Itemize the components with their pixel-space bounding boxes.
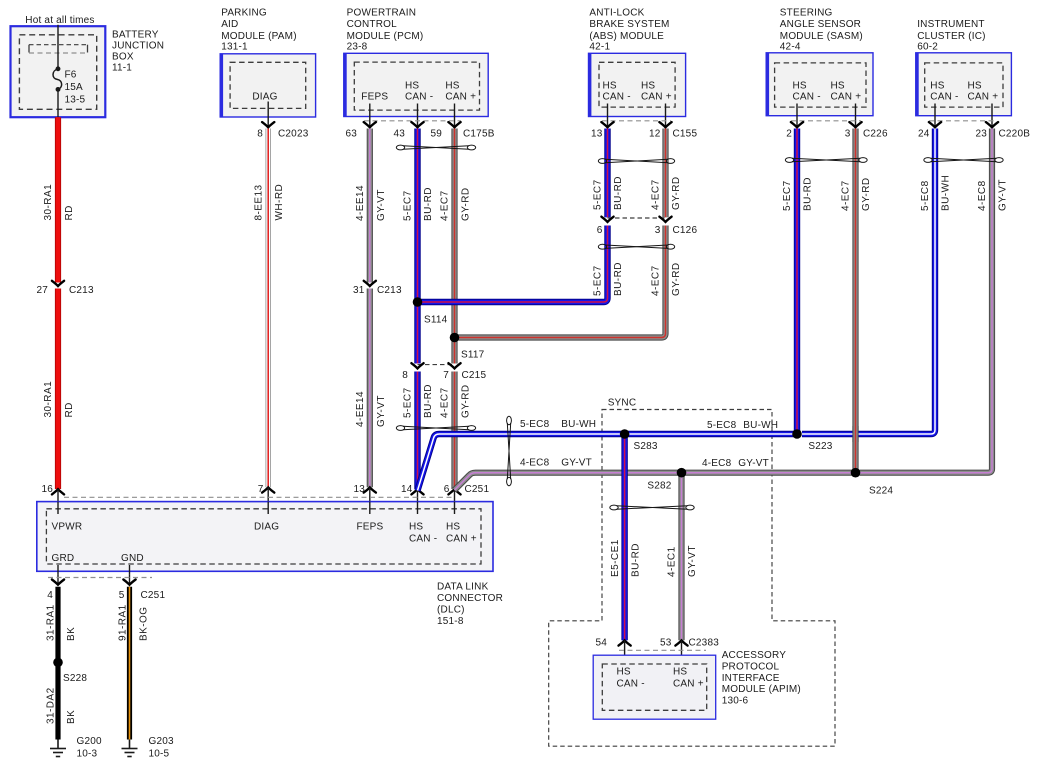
svg-text:5-EC7: 5-EC7 xyxy=(403,387,414,418)
twisted pair SYNC bus wires xyxy=(507,416,512,485)
svg-text:59: 59 xyxy=(430,128,442,139)
connector C155 dashed line xyxy=(602,120,671,122)
twisted pair APIM CAN wires xyxy=(610,505,694,510)
svg-text:GND: GND xyxy=(121,553,144,564)
svg-text:30-RA1: 30-RA1 xyxy=(43,184,54,221)
BJB internal bus bars xyxy=(29,45,88,53)
inline connector C215 arrow pin 7 xyxy=(448,363,460,368)
wire 4-EC7 GY-RD ABS HS CAN+ lower segment to splice S117 xyxy=(455,226,666,338)
data link connector DLC box xyxy=(37,502,493,572)
APIM pin 54 lead xyxy=(624,640,626,666)
svg-text:CAN -: CAN - xyxy=(617,679,645,690)
ABS connector arrow pin 13 xyxy=(601,122,613,127)
svg-text:4-EC7: 4-EC7 xyxy=(440,387,451,418)
svg-text:31: 31 xyxy=(353,285,365,296)
svg-text:GRD: GRD xyxy=(52,553,75,564)
svg-text:C155: C155 xyxy=(673,128,698,139)
svg-text:ANGLE SENSOR: ANGLE SENSOR xyxy=(780,19,861,30)
svg-text:HS: HS xyxy=(446,522,460,533)
svg-text:42-4: 42-4 xyxy=(780,41,801,52)
svg-text:4: 4 xyxy=(47,590,53,601)
DLC pin 14 lead xyxy=(417,489,419,501)
svg-text:C126: C126 xyxy=(673,225,698,236)
inline connector C126 arrow pin 6 xyxy=(601,217,613,222)
svg-text:C226: C226 xyxy=(863,128,888,139)
svg-text:CAN +: CAN + xyxy=(445,92,476,103)
svg-text:53: 53 xyxy=(660,638,672,649)
svg-text:8-EE13: 8-EE13 xyxy=(254,184,265,220)
DLC connector arrow pin 13 xyxy=(364,487,376,492)
PCM connector arrow pin 59 xyxy=(448,122,460,127)
inline connector C215 arrow pin 8 xyxy=(411,363,423,368)
fuse F6 15A xyxy=(53,67,62,91)
svg-text:BK: BK xyxy=(66,710,77,724)
DLC GRD internal lead xyxy=(57,565,59,574)
svg-text:23: 23 xyxy=(975,128,987,139)
svg-text:BOX: BOX xyxy=(112,52,134,63)
IC connector arrow pin 24 xyxy=(929,122,941,127)
svg-text:CAN +: CAN + xyxy=(641,92,672,103)
svg-text:8: 8 xyxy=(257,128,263,139)
svg-text:CAN -: CAN - xyxy=(603,92,631,103)
svg-text:131-1: 131-1 xyxy=(221,41,248,52)
svg-text:Hot at all times: Hot at all times xyxy=(25,15,94,26)
wire 4-EE14 GY-VT FEPS wire upper segment xyxy=(367,129,373,283)
svg-text:BU-RD: BU-RD xyxy=(613,262,624,296)
splice S282 xyxy=(677,468,687,478)
svg-text:14: 14 xyxy=(401,484,413,495)
svg-text:HS: HS xyxy=(793,81,807,92)
svg-text:16: 16 xyxy=(41,484,53,495)
DLC FEPS internal lead xyxy=(369,502,371,514)
feed line from Hot at all times xyxy=(57,25,59,69)
svg-text:27: 27 xyxy=(36,285,48,296)
twisted pair DLC CAN wires xyxy=(396,426,475,431)
svg-text:CAN -: CAN - xyxy=(930,92,958,103)
svg-text:7: 7 xyxy=(258,484,264,495)
DLC top connector dashed line xyxy=(64,496,455,498)
APIM connector arrow pin 54 xyxy=(619,640,631,645)
svg-text:S224: S224 xyxy=(869,486,893,497)
svg-text:CAN -: CAN - xyxy=(793,92,821,103)
svg-text:S117: S117 xyxy=(461,350,485,361)
svg-text:DIAG: DIAG xyxy=(254,522,279,533)
twisted pair PCM CAN wires xyxy=(396,145,475,150)
SASM HS CAN+ pin lead xyxy=(855,104,857,127)
svg-text:HS: HS xyxy=(405,81,419,92)
svg-text:STEERING: STEERING xyxy=(780,8,833,19)
PAM connector arrow pin 8 xyxy=(262,122,274,127)
wire 8-EE13 WH-RD diagnostic wire xyxy=(266,129,271,488)
svg-text:BATTERY: BATTERY xyxy=(112,30,159,41)
svg-text:WH-RD: WH-RD xyxy=(274,184,285,221)
PCM HS CAN+ pin lead xyxy=(454,104,456,127)
svg-text:PARKING: PARKING xyxy=(221,8,267,19)
connector C215 dashed line xyxy=(418,364,455,366)
svg-text:10-3: 10-3 xyxy=(77,749,98,760)
svg-text:5-EC8: 5-EC8 xyxy=(520,419,550,430)
SASM connector arrow pin 2 xyxy=(791,122,803,127)
DLC connector arrow pin 14 xyxy=(411,489,423,494)
DLC VPWR internal lead xyxy=(57,502,59,514)
DLC connector arrow pin 4 xyxy=(52,580,64,585)
wire 4-EC1 GY-VT APIM HS CAN+ drop xyxy=(678,473,684,641)
IC HS CAN- pin lead xyxy=(934,104,936,127)
svg-text:11-1: 11-1 xyxy=(112,63,132,74)
svg-text:FEPS: FEPS xyxy=(357,522,384,533)
SASM HS CAN- pin lead xyxy=(796,104,798,127)
wire 4-EC7 GY-RD SASM crossing patch xyxy=(852,426,858,442)
splice S224 xyxy=(851,468,861,478)
wire 30-RA1 RD battery feed upper segment xyxy=(55,117,61,282)
svg-text:S114: S114 xyxy=(424,314,448,325)
twisted pair ABS CAN wires upper xyxy=(598,159,674,164)
PAM DIAG pin lead xyxy=(267,102,269,127)
svg-text:HS: HS xyxy=(617,667,631,678)
connector C2383 dashed line xyxy=(619,649,706,651)
svg-text:5: 5 xyxy=(119,590,125,601)
svg-text:BRAKE SYSTEM: BRAKE SYSTEM xyxy=(589,19,669,30)
wire 31-RA1 BK ground wire upper segment xyxy=(55,587,60,740)
ground G203 xyxy=(122,740,138,757)
svg-text:HS: HS xyxy=(641,81,655,92)
svg-text:BU-RD: BU-RD xyxy=(613,176,624,210)
svg-text:SYNC: SYNC xyxy=(608,398,637,409)
svg-text:HS: HS xyxy=(409,522,423,533)
svg-text:C251: C251 xyxy=(141,590,166,601)
svg-text:BU-RD: BU-RD xyxy=(423,187,434,221)
svg-text:2: 2 xyxy=(786,128,792,139)
accessory protocol interface module APIM box xyxy=(593,655,716,719)
connector C126 dashed line xyxy=(608,217,666,219)
svg-text:HS: HS xyxy=(831,81,845,92)
svg-text:5-EC8: 5-EC8 xyxy=(707,420,737,431)
APIM connector arrow pin 53 xyxy=(675,640,687,645)
svg-text:5-EC7: 5-EC7 xyxy=(593,179,604,210)
svg-text:4-EC7: 4-EC7 xyxy=(841,180,852,211)
svg-text:5-EC7: 5-EC7 xyxy=(593,265,604,296)
svg-text:C175B: C175B xyxy=(463,128,495,139)
svg-text:C251: C251 xyxy=(465,484,490,495)
wire 91-RA1 BK-OG ground wire xyxy=(127,587,132,740)
svg-text:3: 3 xyxy=(845,128,851,139)
svg-text:8: 8 xyxy=(402,370,408,381)
splice S283 xyxy=(620,429,630,439)
splice S223 xyxy=(792,429,802,439)
svg-text:S223: S223 xyxy=(808,441,832,452)
svg-text:5-EC8: 5-EC8 xyxy=(920,180,931,211)
svg-text:12: 12 xyxy=(649,128,661,139)
splice S228 xyxy=(53,658,63,668)
svg-text:60-2: 60-2 xyxy=(917,41,938,52)
connector C220B dashed line xyxy=(929,120,997,122)
svg-text:VPWR: VPWR xyxy=(52,522,83,533)
svg-text:GY-VT: GY-VT xyxy=(738,458,769,469)
wire E5-CE1 BU-RD APIM HS CAN- drop xyxy=(621,434,627,640)
line fuse to box bottom xyxy=(57,89,59,117)
powertrain control module PCM box xyxy=(344,53,488,116)
svg-text:5-EC7: 5-EC7 xyxy=(782,180,793,211)
svg-text:CAN +: CAN + xyxy=(831,92,862,103)
svg-text:CAN -: CAN - xyxy=(409,534,437,545)
svg-text:13: 13 xyxy=(353,484,365,495)
svg-text:GY-VT: GY-VT xyxy=(687,545,698,577)
svg-text:PROTOCOL: PROTOCOL xyxy=(722,661,780,672)
wire 30-RA1 RD battery feed lower segment xyxy=(55,289,61,490)
inline connector C213 arrow pin 27 xyxy=(52,281,64,286)
svg-text:HS: HS xyxy=(930,81,944,92)
svg-text:G203: G203 xyxy=(149,736,175,747)
svg-text:13: 13 xyxy=(591,128,603,139)
wire 4-EC8 GY-VT IC HS CAN+ segment xyxy=(860,129,993,473)
svg-text:C220B: C220B xyxy=(999,128,1031,139)
svg-text:130-6: 130-6 xyxy=(722,696,749,707)
PCM HS CAN- pin lead xyxy=(417,104,419,127)
svg-text:GY-RD: GY-RD xyxy=(671,262,682,296)
anti-lock brake system ABS module box xyxy=(589,53,686,116)
wire 5-EC7 BU-RD ABS HS CAN- lower segment to splice S114 xyxy=(418,226,608,303)
svg-text:C213: C213 xyxy=(377,285,402,296)
svg-text:FEPS: FEPS xyxy=(361,92,388,103)
svg-text:GY-VT: GY-VT xyxy=(998,179,1009,211)
svg-text:91-RA1: 91-RA1 xyxy=(118,604,129,641)
SYNC system dashed boundary xyxy=(549,410,835,747)
PCM connector arrow pin 43 xyxy=(411,122,423,127)
steering angle sensor module SASM box xyxy=(766,53,873,116)
svg-text:4-EC8: 4-EC8 xyxy=(977,180,988,211)
svg-text:CAN +: CAN + xyxy=(673,679,704,690)
svg-text:AID: AID xyxy=(221,19,238,30)
wire 5-EC7 BU-RD HS CAN- PCM lower segment xyxy=(414,372,420,490)
wire 4-EE14 GY-VT FEPS wire lower segment xyxy=(367,289,373,488)
svg-text:43: 43 xyxy=(393,128,405,139)
svg-text:42-1: 42-1 xyxy=(589,41,610,52)
svg-text:BU-RD: BU-RD xyxy=(423,384,434,418)
svg-text:JUNCTION: JUNCTION xyxy=(112,41,164,52)
svg-text:4-EC7: 4-EC7 xyxy=(651,265,662,296)
svg-text:GY-RD: GY-RD xyxy=(861,177,872,211)
svg-text:GY-RD: GY-RD xyxy=(671,176,682,210)
svg-text:4-EC7: 4-EC7 xyxy=(651,179,662,210)
ABS HS CAN+ pin lead xyxy=(665,104,667,127)
svg-text:G200: G200 xyxy=(77,736,103,747)
svg-text:63: 63 xyxy=(345,128,357,139)
wire 5-EC7 BU-RD ABS HS CAN- upper segment xyxy=(604,129,610,218)
svg-text:INSTRUMENT: INSTRUMENT xyxy=(917,19,985,30)
svg-text:S282: S282 xyxy=(647,481,671,492)
svg-text:5-EC7: 5-EC7 xyxy=(403,190,414,221)
svg-text:4-EC8: 4-EC8 xyxy=(520,458,550,469)
DLC connector arrow pin 7 xyxy=(262,487,274,492)
DLC GND internal lead xyxy=(129,565,131,574)
svg-text:10-5: 10-5 xyxy=(149,749,170,760)
svg-text:HS: HS xyxy=(673,667,687,678)
connector C226 dashed line xyxy=(791,120,861,122)
svg-text:4-EC7: 4-EC7 xyxy=(440,190,451,221)
connector C175B dashed line xyxy=(364,120,461,122)
svg-text:BU-RD: BU-RD xyxy=(803,177,814,211)
svg-text:E5-CE1: E5-CE1 xyxy=(610,539,621,577)
svg-text:S283: S283 xyxy=(634,441,658,452)
svg-text:BU-WH: BU-WH xyxy=(941,175,952,211)
wire 4-EC7 GY-RD SASM HS CAN+ to splice S224 xyxy=(852,129,858,473)
twisted pair SASM CAN wires xyxy=(785,158,867,163)
battery junction box xyxy=(11,26,106,117)
wire 4-EC8 GY-VT bus from DLC pin 6 to S224 xyxy=(455,473,856,490)
svg-text:6: 6 xyxy=(444,484,450,495)
svg-text:GY-VT: GY-VT xyxy=(376,395,387,427)
DLC connector arrow pin 5 xyxy=(123,580,135,585)
svg-text:BU-WH: BU-WH xyxy=(561,419,596,430)
DLC bottom connector dashed line xyxy=(48,577,152,579)
svg-text:ACCESSORY: ACCESSORY xyxy=(722,650,787,661)
DLC pin 6 lead xyxy=(454,489,456,501)
svg-text:CAN +: CAN + xyxy=(968,92,999,103)
svg-text:S228: S228 xyxy=(63,673,87,684)
svg-text:CAN -: CAN - xyxy=(405,92,433,103)
svg-text:6: 6 xyxy=(597,225,603,236)
DLC connector arrow pin 6 xyxy=(448,489,460,494)
svg-text:GY-VT: GY-VT xyxy=(376,189,387,221)
DLC DIAG internal lead xyxy=(267,502,269,514)
svg-text:C2023: C2023 xyxy=(278,128,309,139)
svg-text:(DLC): (DLC) xyxy=(437,605,465,616)
twisted pair IC CAN wires xyxy=(924,158,1003,163)
wire 5-EC7 BU-RD HS CAN- PCM upper segment xyxy=(414,129,420,364)
svg-text:POWERTRAIN: POWERTRAIN xyxy=(347,8,417,19)
IC connector arrow pin 23 xyxy=(986,122,998,127)
svg-text:151-8: 151-8 xyxy=(437,616,464,627)
DLC pin 7 lead xyxy=(267,487,269,501)
svg-text:31-RA1: 31-RA1 xyxy=(46,604,57,641)
splice S117 xyxy=(450,333,460,343)
inline connector C213 arrow pin 31 xyxy=(364,281,376,286)
APIM pin 53 lead xyxy=(681,640,683,666)
svg-text:DATA LINK: DATA LINK xyxy=(437,582,489,593)
svg-text:4-EC8: 4-EC8 xyxy=(702,458,732,469)
svg-text:GY-VT: GY-VT xyxy=(561,458,592,469)
svg-text:13-5: 13-5 xyxy=(65,95,86,106)
DLC GND pin lead xyxy=(129,574,131,584)
svg-text:C213: C213 xyxy=(69,285,94,296)
inline connector C126 arrow pin 3 xyxy=(659,217,671,222)
svg-text:4-EE14: 4-EE14 xyxy=(355,185,366,221)
svg-text:7: 7 xyxy=(443,370,449,381)
svg-text:30-RA1: 30-RA1 xyxy=(43,381,54,418)
ABS connector arrow pin 12 xyxy=(659,122,671,127)
ABS HS CAN- pin lead xyxy=(607,104,609,127)
ground G200 xyxy=(50,740,66,757)
parking aid module PAM box xyxy=(220,54,315,117)
svg-text:BK-OG: BK-OG xyxy=(139,607,150,641)
wire 5-EC7 BU-RD SASM HS CAN- to splice S223 xyxy=(794,129,800,435)
svg-text:24: 24 xyxy=(918,128,930,139)
svg-text:15A: 15A xyxy=(65,82,84,93)
DLC pin 13 lead xyxy=(369,487,371,501)
wire 4-EC7 GY-RD HS CAN+ PCM lower segment xyxy=(451,372,457,490)
svg-text:RD: RD xyxy=(64,205,75,220)
svg-text:23-8: 23-8 xyxy=(347,41,368,52)
PCM FEPS pin lead xyxy=(369,104,371,127)
svg-text:31-DA2: 31-DA2 xyxy=(46,687,57,724)
svg-text:C215: C215 xyxy=(462,370,487,381)
svg-text:4-EC1: 4-EC1 xyxy=(667,546,678,577)
DLC connector arrow pin 16 xyxy=(52,489,64,494)
DLC pin 16 lead xyxy=(57,489,59,501)
instrument cluster IC box xyxy=(916,53,1012,116)
twisted pair ABS CAN wires lower xyxy=(598,244,674,249)
svg-text:C2383: C2383 xyxy=(689,638,720,649)
svg-text:F6: F6 xyxy=(65,70,77,81)
svg-text:54: 54 xyxy=(595,638,607,649)
svg-text:CONTROL: CONTROL xyxy=(347,19,398,30)
splice S114 xyxy=(413,297,423,307)
svg-text:GY-RD: GY-RD xyxy=(461,187,472,221)
DLC HS CAN- internal lead xyxy=(417,502,419,514)
svg-text:MODULE (APIM): MODULE (APIM) xyxy=(722,684,801,695)
IC HS CAN+ pin lead xyxy=(991,104,993,127)
svg-text:3: 3 xyxy=(655,225,661,236)
svg-text:ANTI-LOCK: ANTI-LOCK xyxy=(589,8,644,19)
svg-text:BU-WH: BU-WH xyxy=(743,420,778,431)
svg-text:DIAG: DIAG xyxy=(252,92,277,103)
svg-text:CONNECTOR: CONNECTOR xyxy=(437,593,503,604)
wire 4-EC7 GY-RD ABS HS CAN+ upper segment xyxy=(662,129,668,218)
svg-text:HS: HS xyxy=(603,81,617,92)
PCM connector arrow pin 63 xyxy=(364,122,376,127)
SASM connector arrow pin 3 xyxy=(849,122,861,127)
wire 5-EC8 BU-WH IC HS CAN- segment xyxy=(802,129,935,435)
svg-text:HS: HS xyxy=(445,81,459,92)
wire 4-EC7 GY-RD HS CAN+ PCM upper segment xyxy=(451,129,457,364)
svg-text:RD: RD xyxy=(64,402,75,417)
wire 5-EC8 BU-WH bus from DLC pin 14 to S223 xyxy=(418,434,798,491)
svg-text:4-EE14: 4-EE14 xyxy=(355,391,366,427)
svg-text:INTERFACE: INTERFACE xyxy=(722,673,780,684)
svg-text:HS: HS xyxy=(968,81,982,92)
svg-text:GY-RD: GY-RD xyxy=(461,384,472,418)
svg-text:CAN +: CAN + xyxy=(446,534,477,545)
DLC GRD pin lead xyxy=(57,574,59,584)
svg-text:BK: BK xyxy=(66,627,77,641)
DLC HS CAN+ internal lead xyxy=(454,502,456,514)
svg-text:BU-RD: BU-RD xyxy=(631,543,642,577)
